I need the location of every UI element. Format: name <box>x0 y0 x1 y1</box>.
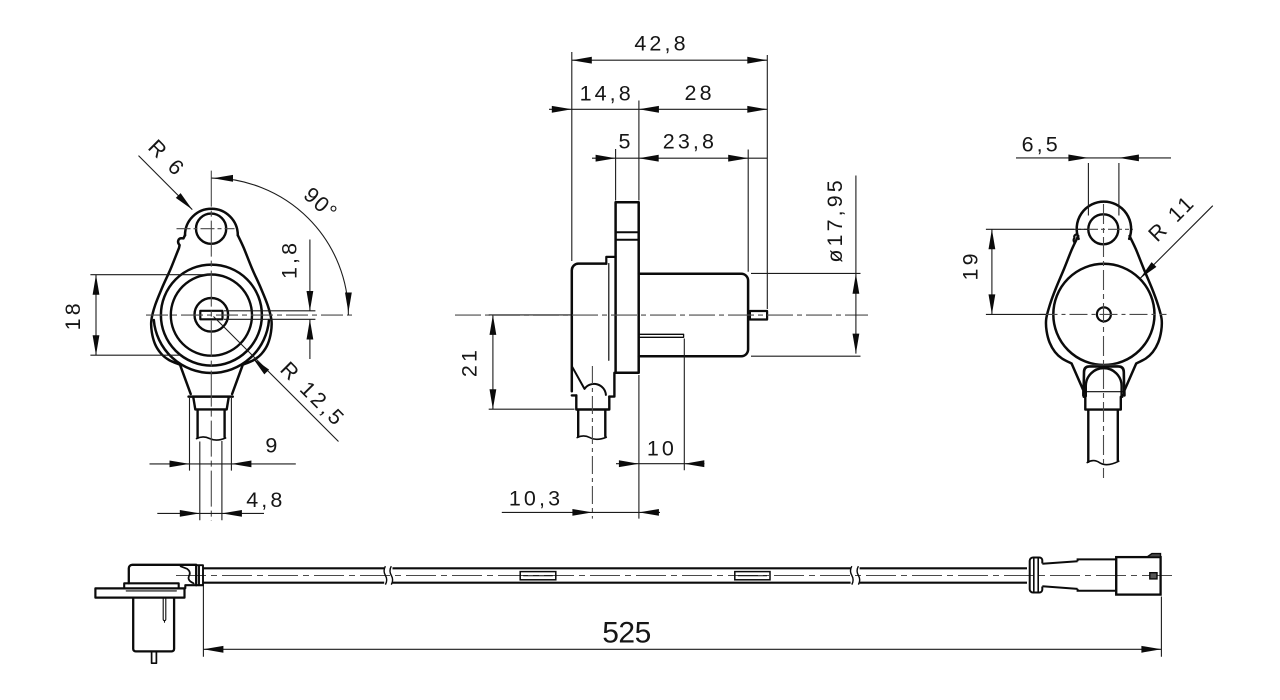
mounting hole (rear view) <box>1088 214 1118 244</box>
barrel circle dia 17.95 (front view) <box>171 275 252 356</box>
R6 leader (front view) <box>139 156 193 210</box>
flange plate bottom arc R12.5 (front view) <box>154 320 269 373</box>
tapered sleeve (bottom view) <box>1042 561 1077 589</box>
cable break wave (rear view) <box>1087 461 1119 465</box>
cable break wave (front view) <box>197 437 226 440</box>
9 dimension lines (front view) <box>150 398 296 471</box>
mounting hole dia 6.5 (front view) <box>196 214 226 244</box>
lug notch (rear view) <box>1074 234 1077 243</box>
connector housing (side view) <box>572 264 607 392</box>
sensor body outline right (front view) <box>232 235 272 394</box>
R12.5 leader (front view) <box>214 317 339 442</box>
1.8 dimension lines (front view) <box>224 240 315 360</box>
boot dome (rear view) <box>1086 368 1122 396</box>
cable upper edge segment 1 (bottom view) <box>203 568 384 582</box>
sensor body outline left (front view) <box>151 235 191 394</box>
arrowheads all dimensions <box>176 193 193 210</box>
body circle R11 (rear view) <box>1053 264 1154 365</box>
flange plate (side view) <box>616 202 639 372</box>
tip pin (bottom view) <box>152 651 157 663</box>
elbow lower edge (bottom view) <box>185 585 203 588</box>
cable upper edge segment 2 (bottom view) <box>393 568 851 582</box>
flange inner line (bottom view) <box>126 590 176 592</box>
horizontal centerline (rear view) <box>1040 313 1167 315</box>
collar (rear view) <box>1084 395 1123 410</box>
housing step at flange (side view) <box>606 257 615 264</box>
boot cup outline (rear view) <box>1084 366 1125 393</box>
hole cross line (front view) <box>177 228 235 230</box>
6.5 dimension (rear view) <box>1016 158 1171 216</box>
mid shell (bottom view) <box>1078 557 1117 595</box>
flange plate (bottom view) <box>95 588 184 597</box>
svg-text:4,8: 4,8 <box>246 488 285 512</box>
svg-text:5: 5 <box>618 129 633 153</box>
svg-text:14,8: 14,8 <box>580 82 634 106</box>
cable edges (side view) <box>578 411 605 437</box>
connector contact square (bottom view) <box>1150 573 1157 579</box>
barrel (bottom view) <box>133 598 174 652</box>
cable edges (rear view) <box>1088 411 1118 462</box>
42.8 dimension (side view) <box>572 52 768 309</box>
svg-text:18: 18 <box>61 300 85 330</box>
4.8 dimension lines (front view) <box>157 441 264 520</box>
housing inner edge (side view) <box>608 264 610 361</box>
cable ferrule (bottom view) <box>196 565 203 585</box>
grommet bellows (bottom view) <box>1030 558 1043 593</box>
barrel (side view) <box>639 274 748 356</box>
vertical centerline (front view) <box>210 171 212 521</box>
svg-text:10: 10 <box>647 436 677 460</box>
svg-text:10,3: 10,3 <box>509 486 563 510</box>
10 dimension (side view) <box>616 339 705 519</box>
shoulder bar (front view) <box>189 395 233 398</box>
vertical centerline (rear view) <box>1103 204 1105 478</box>
sensor body outline right (rear view) <box>1124 236 1161 396</box>
cable break wave (side view) <box>577 436 606 439</box>
seat flare (bottom view) <box>124 583 179 588</box>
svg-text:42,8: 42,8 <box>634 32 688 56</box>
body circle R11 (front view) <box>161 265 262 366</box>
cable marker sleeve 1 (bottom view) <box>520 572 556 580</box>
10.3 dimension (side view) <box>502 511 660 513</box>
19 dimension (rear view) <box>986 229 1089 314</box>
svg-text:28: 28 <box>685 81 715 105</box>
mounting lug arc (rear view) <box>1077 202 1131 239</box>
terminal pin (side view) <box>750 311 767 320</box>
svg-text:23,8: 23,8 <box>663 129 717 153</box>
svg-text:19: 19 <box>959 250 983 280</box>
horizontal centerline (front view) <box>146 314 352 316</box>
cable centerline (side view) <box>591 366 593 519</box>
cable segment 3 (bottom view) <box>860 568 1027 582</box>
cable marker sleeve 2 (bottom view) <box>735 572 770 580</box>
525 dimension lines (bottom view) <box>203 586 1161 657</box>
flange step lines (side view) <box>616 232 639 240</box>
cable break marks 2 (bottom view) <box>851 566 860 584</box>
hole cross line (rear view) <box>1060 228 1133 230</box>
horizontal centerline (side view) <box>455 314 868 316</box>
sensor housing (bottom view) <box>129 565 196 585</box>
dia 17.95 dimension (side view) <box>751 176 861 357</box>
connector latch bevel (bottom view) <box>1147 554 1161 558</box>
cable edges (front view) <box>198 411 225 438</box>
pole piece circle (front view) <box>195 298 229 332</box>
svg-text:ø17,95: ø17,95 <box>823 177 847 263</box>
21 dimension (side view) <box>489 315 575 409</box>
svg-text:525: 525 <box>602 617 651 650</box>
svg-text:9: 9 <box>265 433 280 457</box>
collar (side view) <box>576 395 609 409</box>
sensor body outline left (rear view) <box>1046 236 1083 396</box>
boot bottom thin line (rear view) <box>1084 391 1125 393</box>
cable centerline (bottom view) <box>176 575 1177 577</box>
boot cut curve (side view) <box>572 367 606 395</box>
R11 leader (rear view) <box>1140 206 1213 279</box>
svg-text:1,8: 1,8 <box>277 240 301 279</box>
connector body (bottom view) <box>1116 557 1160 595</box>
housing lower edges (side view) <box>572 373 615 397</box>
14.8 / 28 dimension (side view) <box>549 101 767 201</box>
sensing slot 1.8 (front view) <box>200 311 222 320</box>
boot cup white mask (rear view) <box>1085 365 1122 396</box>
center pin hole (rear view) <box>1097 307 1111 321</box>
boot cut (bottom view) <box>181 566 194 583</box>
locating tongue (side view) <box>639 334 683 337</box>
18 dimension (front view) <box>90 275 210 356</box>
cable break marks 1 (bottom view) <box>384 566 393 584</box>
inner pin slot (bottom view) <box>163 599 166 623</box>
5 / 23.8 dimension (side view) <box>592 149 767 272</box>
svg-text:21: 21 <box>458 347 482 377</box>
svg-text:6,5: 6,5 <box>1022 133 1061 157</box>
mounting lug arc R6 (front view) <box>185 209 238 235</box>
90 deg arc (front view) <box>211 178 348 315</box>
collar (front view) <box>193 398 228 410</box>
